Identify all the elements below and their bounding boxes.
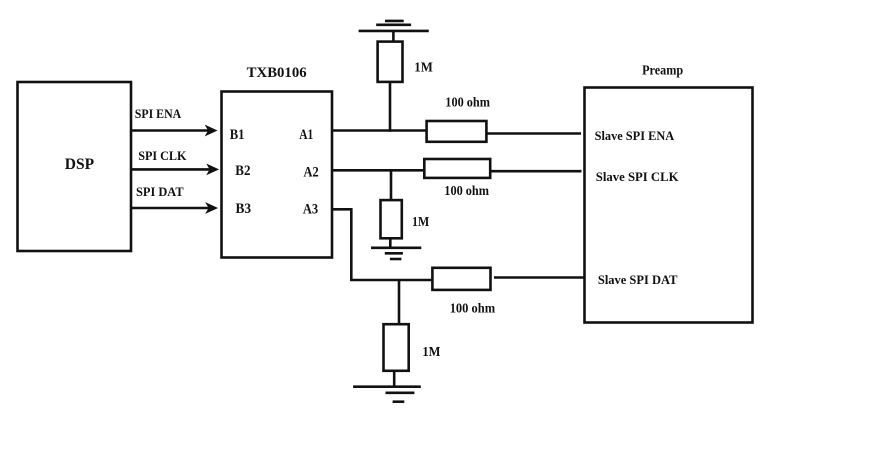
TXB0106 block U2 [222, 92, 333, 258]
wire A2 (TXB to R2) [332, 169, 424, 172]
arrowhead SPI ENA [206, 126, 217, 136]
svg-text:A1: A1 [299, 127, 313, 143]
svg-text:100 ohm: 100 ohm [450, 301, 495, 316]
svg-text:SPI CLK: SPI CLK [138, 149, 187, 163]
wire R1 to Preamp (Slave SPI ENA) [486, 132, 581, 135]
wire R6 to GND3 [393, 371, 396, 387]
ground GND2 [371, 248, 421, 259]
svg-text:TXB0106: TXB0106 [247, 65, 307, 81]
svg-text:A3: A3 [303, 202, 318, 218]
svg-text:DSP: DSP [65, 156, 95, 173]
svg-text:Slave SPI ENA: Slave SPI ENA [595, 129, 675, 143]
resistor R4 1M (pull on A1) [378, 42, 403, 82]
arrowhead SPI CLK [207, 165, 218, 175]
wire SPI DAT (DSP to B3) [131, 207, 209, 210]
ground GND1 (inverted, above R4) [359, 21, 429, 31]
svg-text:1M: 1M [412, 215, 429, 230]
svg-text:100 ohm: 100 ohm [445, 95, 490, 110]
wire A3 net to R6 [398, 280, 401, 324]
wire SPI CLK (DSP to B2) [131, 168, 210, 171]
wire A1 (TXB to R1) [332, 129, 427, 132]
wire SPI ENA (DSP to B1) [131, 129, 208, 132]
svg-text:Preamp: Preamp [642, 63, 683, 78]
wire R4 to A1 net [389, 82, 392, 132]
svg-text:B2: B2 [235, 163, 250, 179]
resistor R2 100 ohm [424, 159, 490, 178]
resistor R1 100 ohm [427, 121, 487, 142]
resistor R6 1M (pull on A3) [384, 324, 409, 371]
DSP block U1 [18, 82, 132, 251]
svg-text:SPI ENA: SPI ENA [135, 107, 182, 121]
svg-text:1M: 1M [414, 61, 433, 76]
wire GND1 to R4 [392, 31, 395, 42]
wire R2 to Preamp (Slave SPI CLK) [490, 170, 581, 173]
svg-text:Slave SPI CLK: Slave SPI CLK [596, 170, 679, 184]
svg-text:A2: A2 [304, 165, 319, 181]
svg-text:B1: B1 [230, 127, 245, 143]
wire A3 (TXB right, jog down to R3) [332, 209, 432, 280]
arrowhead SPI DAT [206, 203, 217, 213]
wire R3 to Preamp (Slave SPI DAT) [494, 276, 584, 279]
Preamp block U3 [585, 88, 753, 323]
wire A2 net to R5 [390, 170, 393, 200]
svg-text:100 ohm: 100 ohm [444, 183, 489, 198]
svg-text:1M: 1M [422, 345, 440, 360]
svg-text:Slave SPI DAT: Slave SPI DAT [598, 273, 678, 287]
resistor R3 100 ohm [432, 268, 490, 290]
ground GND3 [353, 387, 421, 402]
svg-text:B3: B3 [236, 201, 252, 217]
wire R5 to GND2 [389, 238, 392, 248]
resistor R5 1M (pull on A2) [381, 200, 402, 238]
svg-text:SPI DAT: SPI DAT [136, 185, 184, 199]
